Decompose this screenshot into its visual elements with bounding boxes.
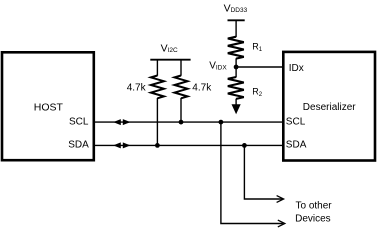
wire left 4.7k to SDA line (156, 98, 158, 145)
node VIDX junction dot (234, 65, 239, 70)
wire SCL (HOST to Deserializer) (94, 121, 284, 123)
wire R2 to ground arrow (235, 99, 237, 106)
resistor 4.7k right (175, 76, 188, 99)
supply VDD33 rail (228, 19, 245, 21)
open arrowhead SDA branch (277, 196, 284, 203)
ground arrow (down) (232, 104, 241, 114)
junction dot right 4.7k on SCL (179, 120, 184, 125)
svg-text:SCL: SCL (286, 117, 306, 128)
resistor 4.7k left (151, 76, 164, 99)
open arrowhead SCL branch (278, 220, 285, 227)
Deserializer block (283, 52, 375, 161)
svg-text:SCL: SCL (69, 117, 89, 128)
svg-text:4.7k: 4.7k (127, 82, 147, 93)
wire right 4.7k to SCL line (180, 98, 182, 122)
wire R1 to node VIDX (235, 58, 237, 67)
bidirectional arrow on SCL (113, 119, 121, 125)
wire VI2C rail to right 4.7k resistor (180, 60, 182, 76)
svg-text:SDA: SDA (286, 140, 307, 151)
svg-text:IDx: IDx (289, 63, 304, 74)
bidirectional arrow on SDA (113, 142, 121, 148)
resistor R1 (228, 37, 244, 59)
wire SDA branch down (244, 145, 282, 199)
wire node VIDX to IDx pin (236, 66, 284, 68)
junction dot SCL branch (219, 120, 224, 125)
svg-text:Deserializer: Deserializer (303, 102, 356, 113)
HOST block (2, 52, 94, 160)
svg-text:VDD33: VDD33 (224, 2, 248, 14)
svg-text:VI2C: VI2C (161, 42, 178, 54)
resistor R2 (228, 77, 244, 99)
svg-text:R2: R2 (252, 86, 263, 97)
svg-text:SDA: SDA (68, 140, 89, 151)
svg-text:To other: To other (296, 201, 333, 212)
junction dot SDA branch (242, 143, 247, 148)
svg-text:R1: R1 (252, 41, 262, 52)
svg-text:HOST: HOST (34, 101, 64, 113)
svg-text:VIDX: VIDX (209, 61, 227, 72)
junction dot left 4.7k on SDA (155, 143, 160, 148)
wire VDD33 rail to R1 (235, 20, 237, 37)
wire SDA (HOST to Deserializer) (94, 144, 284, 146)
supply VI2C rail (150, 59, 190, 61)
wire node VIDX to R2 (235, 67, 237, 77)
wire VI2C rail to left 4.7k resistor (156, 60, 158, 76)
wire SCL branch down (221, 122, 283, 223)
svg-text:4.7k: 4.7k (192, 82, 212, 93)
svg-text:Devices: Devices (295, 213, 331, 224)
